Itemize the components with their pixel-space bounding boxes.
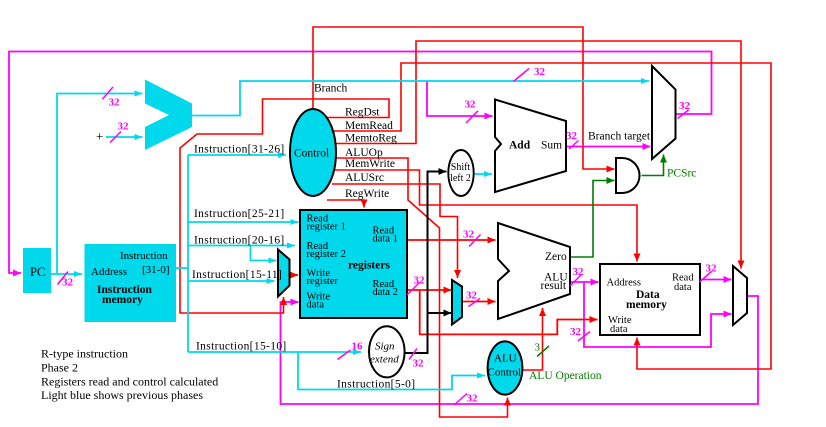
svg-text:3: 3 [535, 342, 541, 354]
bus width 32 ALU result tap [578, 332, 590, 342]
wire Read data 1 to ALU top input (red) [407, 239, 496, 241]
instruction memory [85, 244, 177, 322]
svg-text:32: 32 [679, 100, 691, 112]
svg-text:memory: memory [626, 299, 667, 311]
wire sign extend tap to ALUSrc mux input 1 (black) [428, 312, 452, 314]
bus width 32 ALUSrc mux output [469, 299, 481, 307]
wire Instruction[25-21] to Read register 1 (cyan) [188, 221, 299, 223]
svg-text:Branch: Branch [314, 83, 347, 95]
registers [300, 210, 407, 318]
bus width 32 sign extend output [409, 349, 417, 360]
wire Read data 2 tap to data memory Write data (red) [420, 290, 598, 334]
svg-text:Sign: Sign [375, 341, 395, 353]
svg-text:32: 32 [534, 66, 546, 78]
bus width 32 write-back [454, 394, 467, 406]
bus width 32 PC to Address [58, 272, 69, 285]
svg-text:ALUSrc: ALUSrc [345, 172, 384, 184]
svg-text:Address: Address [607, 278, 641, 289]
svg-text:data 2: data 2 [373, 287, 398, 298]
bus width 16 sign extend input [338, 350, 351, 360]
write-register mux (RegDst mux) [278, 250, 290, 297]
svg-text:Instruction: Instruction [120, 250, 168, 262]
control unit [290, 109, 336, 196]
branch mux (PCSrc mux) [652, 66, 676, 159]
shift left 2 [448, 150, 473, 196]
svg-text:Instruction[20-16]: Instruction[20-16] [194, 235, 285, 247]
svg-text:RegWrite: RegWrite [345, 188, 389, 200]
MemtoReg mux [733, 266, 747, 325]
wire Instruction[15-11] to write-register mux input 1 (cyan) [188, 280, 275, 282]
svg-text:Address: Address [91, 266, 127, 278]
svg-text:Sum: Sum [541, 140, 562, 152]
svg-text:32: 32 [573, 266, 585, 278]
wire constant 4 to adder bottom input (cyan) [106, 136, 143, 138]
svg-text:Zero: Zero [545, 251, 567, 263]
wire PC+4 tap to Add top input (magenta) [427, 81, 493, 116]
wire ALUSrc mux output to ALU bottom input (red) [462, 301, 496, 303]
svg-text:Control: Control [294, 148, 329, 160]
wire write-register mux output to registers (red) [290, 274, 299, 276]
bus width 32 Read data 1 [469, 235, 481, 247]
svg-text:data 1: data 1 [373, 234, 398, 245]
svg-text:Instruction[15-10]: Instruction[15-10] [196, 341, 287, 353]
svg-text:Registers read and control cal: Registers read and control calculated [41, 375, 218, 389]
ALU control [488, 341, 523, 394]
svg-text:32: 32 [414, 275, 426, 287]
wire Instruction[15-0] to sign extend (cyan) [188, 351, 361, 353]
wire data memory Read data to MemtoReg mux top input (magenta) [700, 279, 732, 281]
svg-text:registers: registers [348, 260, 390, 272]
adder PC+4 [145, 80, 192, 151]
svg-text:extend: extend [370, 354, 399, 366]
svg-text:left 2: left 2 [450, 173, 471, 184]
wire sign extend output to shift left 2 (black) [405, 172, 447, 354]
wire ALU control output to ALU control point (red) [523, 308, 543, 370]
wire ALU result to data memory Address (magenta) [570, 281, 599, 283]
PC [23, 248, 51, 293]
svg-text:Control: Control [488, 367, 522, 379]
svg-text:R-type instruction: R-type instruction [41, 347, 128, 361]
wire Branch control (Control to AND gate, red) [313, 27, 615, 169]
svg-text:32: 32 [706, 263, 718, 275]
AND gate [616, 158, 640, 193]
wire MemRead control (Control to data memory bottom, red) [332, 63, 771, 369]
data memory [600, 264, 700, 335]
svg-text:32: 32 [413, 358, 425, 370]
svg-text:32: 32 [570, 326, 582, 338]
wire PC+4 adder output to branch mux input 0 (cyan) [192, 81, 649, 116]
wire MemWrite control (Control to data memory top, red) [335, 170, 637, 262]
svg-text:32: 32 [566, 130, 578, 142]
wire MemtoReg control (Control to MemtoReg mux select, red) [335, 41, 741, 269]
wire branch target (Add Sum output to branch mux, magenta) [566, 146, 651, 148]
wire ALUOp control (Control to ALU control unit, red) [336, 158, 508, 417]
bus width 32 PC+4 [514, 69, 530, 82]
svg-text:register 2: register 2 [307, 249, 346, 260]
svg-text:32: 32 [463, 229, 475, 241]
svg-text:MemRead: MemRead [345, 120, 393, 132]
svg-text:Branch target: Branch target [588, 131, 651, 143]
wire MemtoReg mux output to registers Write data (magenta) [281, 296, 759, 404]
svg-text:32: 32 [62, 277, 74, 289]
svg-text:+: + [96, 129, 103, 144]
wire ALU result tap to MemtoReg mux bottom input (magenta) [584, 282, 732, 347]
svg-text:data: data [610, 324, 628, 335]
svg-text:32: 32 [466, 290, 478, 302]
svg-text:Instruction[31-26]: Instruction[31-26] [194, 144, 285, 156]
svg-text:register: register [307, 276, 339, 287]
bus width 32 Read data 2 [407, 283, 420, 296]
svg-text:16: 16 [352, 341, 364, 353]
wire PC output up to adder top input (cyan) [57, 94, 143, 275]
svg-text:Light blue shows previous phas: Light blue shows previous phases [41, 388, 203, 402]
svg-text:Add: Add [509, 140, 531, 152]
svg-text:[31-0]: [31-0] [142, 264, 170, 276]
bus width 32 branch mux output [678, 110, 689, 119]
wire instruction memory output stub (cyan) [176, 267, 188, 269]
svg-text:Instruction[15-11]: Instruction[15-11] [192, 269, 282, 281]
svg-text:data: data [307, 300, 325, 311]
wire shift left 2 output to Add bottom input (cyan) [474, 173, 492, 175]
wire PC write-back (PCSrc mux output to PC input, magenta) [9, 52, 712, 274]
wire Zero output to AND gate (green) [570, 181, 615, 258]
wire Instruction[20-16] tap to write-register mux input 0 (cyan) [251, 246, 277, 261]
bus width 32 Add top input [466, 111, 478, 123]
svg-text:Shift: Shift [451, 162, 471, 173]
svg-text:PC: PC [30, 265, 45, 279]
bus width 32 memory Read data [700, 272, 712, 283]
svg-text:32: 32 [467, 393, 479, 405]
Add (branch adder) [495, 100, 566, 193]
sign extend [369, 326, 405, 377]
ALU [498, 223, 570, 319]
svg-text:Instruction[25-21]: Instruction[25-21] [194, 208, 285, 220]
svg-text:RegDst: RegDst [345, 107, 380, 119]
bus width 32 ALU result [570, 275, 581, 286]
svg-text:32: 32 [465, 99, 477, 111]
wire Instruction[20-16] to Read register 2 (cyan) [188, 245, 295, 247]
svg-text:32: 32 [118, 121, 130, 133]
svg-text:data: data [674, 282, 692, 293]
wire RegWrite control (Control to registers top, red) [327, 200, 364, 208]
svg-text:ALU: ALU [494, 353, 517, 365]
wire instruction bus vertical (cyan) [187, 155, 189, 352]
wire ALUSrc control (Control to ALUSrc mux select, red) [332, 184, 458, 278]
bus width 32 PC to adder [103, 87, 114, 99]
svg-text:PCSrc: PCSrc [667, 168, 696, 180]
wire Instruction[5-0] to ALU control (cyan) [298, 352, 485, 390]
svg-text:MemWrite: MemWrite [345, 158, 395, 170]
svg-text:Phase 2: Phase 2 [41, 361, 78, 375]
svg-text:result: result [541, 280, 567, 292]
svg-text:register 1: register 1 [307, 222, 346, 233]
wire AND gate output PCSrc to branch mux select (green) [642, 155, 664, 176]
bus width 32 constant 4 [110, 132, 121, 143]
bus width 32 Sum output [569, 141, 579, 150]
svg-text:ALU Operation: ALU Operation [529, 370, 602, 382]
svg-text:MemtoReg: MemtoReg [345, 133, 397, 145]
svg-text:32: 32 [109, 97, 121, 109]
wire Instruction[31-26] to Control (cyan) [188, 154, 286, 156]
svg-text:Instruction[5-0]: Instruction[5-0] [337, 379, 415, 391]
bus width 3 ALU operation [537, 346, 549, 357]
ALUSrc mux [452, 280, 462, 325]
svg-text:memory: memory [102, 294, 143, 306]
wire RegDst control (Control to write-register mux select, red) [180, 99, 389, 313]
wire Read data 2 to ALUSrc mux input 0 (red) [407, 289, 452, 291]
wire PC output to instruction memory Address (cyan) [51, 273, 82, 275]
